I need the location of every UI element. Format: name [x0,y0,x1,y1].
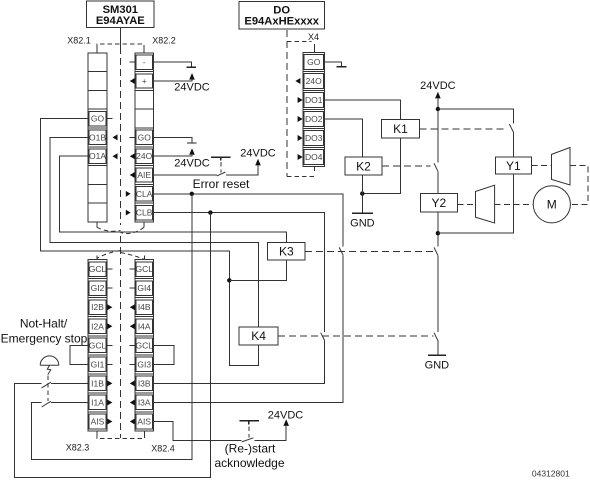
svg-text:GI2: GI2 [91,283,105,293]
X4 DO2 direction arrow [298,116,303,122]
24VDC arrow (plus) [189,73,195,80]
wire CLA from X82.2 to K3 contact [154,194,344,247]
relay K1 [381,120,419,138]
K4 dashed actuating link [278,335,433,337]
SM301 stub to connector bracket [120,28,122,47]
svg-text:GI3: GI3 [137,359,151,369]
wire X82.2 GO to 0V bar [154,137,192,142]
terminal column X82.3 [88,260,107,431]
module title box DO / E94AxHExxxx [239,2,324,29]
terminal X82.2 CLA [136,187,153,201]
module title box SM301 / E94AYAE [87,1,155,28]
svg-text:-: - [143,57,146,67]
wire contact K1 to Y1 [512,132,514,157]
contact K3 on return rail [434,247,438,255]
wire branch to Y1 feed [438,109,514,123]
X82.4 I3A direction arrow [130,400,135,406]
dashed link Y1 to brake [532,165,552,167]
X4 24O direction arrow [295,78,300,84]
svg-text:I3B: I3B [138,378,151,388]
terminal X82.4 I4B [136,300,153,315]
X82.4 I4B direction arrow [130,304,135,310]
X82.3 AIS direction arrow [107,419,112,425]
terminal column X82.1 [88,53,107,222]
valve coil Y1 [496,157,532,174]
brake symbol for Y2 [476,185,495,223]
terminal X82.3 I2B [89,300,106,315]
X82.2 AIE direction arrow [130,172,135,178]
node supply rail branch [436,107,440,111]
X4 DO1 direction arrow [298,97,303,103]
0V bar symbol (GO) [187,142,197,144]
stub bracket to column X82.2 [143,49,145,53]
X82.2 CLB direction arrow [126,210,131,216]
stub to column X82.4 [144,256,146,260]
terminal X82.4 GI4 [136,281,153,296]
relay K2 [345,157,382,175]
terminal X82.1 O1B [89,130,107,144]
wire CLB below contact to I3B [154,341,325,384]
brake symbol for Y1 [552,148,571,186]
wire X82.2 24O to 24VDC [154,155,193,156]
error reset pushbutton actuator [211,157,231,160]
stub column X82.3 to bracket [96,431,98,435]
emergency stop mushroom head [40,356,59,365]
terminal X82.2 AIE [136,168,153,182]
relay K4 [239,327,278,345]
svg-text:I1B: I1B [91,378,104,388]
svg-text:X4: X4 [308,32,319,42]
terminal X82.2 minus [136,55,153,69]
svg-text:DO1: DO1 [305,95,323,105]
svg-text:24VDC: 24VDC [420,80,456,92]
bottom connector bracket X82.3/X82.4 (dashed) [97,435,145,439]
terminal X82.2 24O [136,149,153,163]
X4 DO4 direction arrow [298,154,303,160]
svg-text:Emergency stop: Emergency stop [1,332,88,346]
error reset contact blade [217,172,226,176]
return rail between contacts [437,255,439,332]
terminal X82.4 I3A [136,395,153,410]
X82.4 I3B direction arrow [130,380,135,386]
X82.4 I4A direction arrow [130,323,135,329]
svg-text:K3: K3 [279,245,294,259]
contact K1 on Y1 feed [509,124,513,132]
motor M [533,186,570,223]
dashed link Y2 to brake [457,203,475,205]
wire AIS X82.4 to restart contact [154,422,242,441]
svg-text:24VDC: 24VDC [174,82,210,94]
svg-text:Error reset: Error reset [193,177,250,191]
terminal X82.4 I4A [136,319,153,334]
connector bracket X82.1/X82.2 (dashed) [97,44,144,48]
break squiggle bottom [97,251,145,260]
svg-text:GI1: GI1 [91,359,105,369]
terminal X82.3 GI1 [89,357,106,372]
svg-text:DO4: DO4 [305,152,323,162]
svg-text:K2: K2 [356,159,371,173]
wire Y2 bottom to K3 contact [437,212,439,247]
terminal X82.4 AIS [136,414,153,429]
svg-text:GCL: GCL [89,340,107,350]
svg-text:DO3: DO3 [305,133,323,143]
error reset actuator dashed link [220,162,222,173]
svg-text:GND: GND [425,360,450,372]
terminal X82.3 I2A [89,319,106,334]
svg-text:GCL: GCL [135,264,153,274]
X82.4 pin dashes GCL GI4 GCL GI3 [130,269,136,364]
24VDC arrow (24O) [189,148,195,155]
svg-text:GCL: GCL [135,340,153,350]
X82.2 GO pin dash [130,136,136,138]
contact K4 on return rail [434,333,438,341]
restart contact blade [242,438,254,442]
svg-text:I2B: I2B [91,302,104,312]
svg-text:AIS: AIS [91,417,105,427]
terminal X4 DO4 [304,150,324,165]
emergency stop contact 1 blade [42,382,51,388]
terminal X82.4 GI3 [136,357,153,372]
svg-text:O1B: O1B [89,132,106,142]
stub X4 to DO column [314,44,316,53]
svg-text:GCL: GCL [89,264,107,274]
X82.3 I1B direction arrow [107,380,112,386]
svg-text:I4B: I4B [138,302,151,312]
terminal X82.2 plus [136,74,153,88]
terminal column X4 (DO) [303,53,325,167]
X82.1 GO pin dash [107,118,113,120]
X82.1 O1A direction arrow [113,153,118,159]
restart actuator dashed link [248,427,250,438]
terminal X82.1 GO [89,111,106,125]
svg-text:+: + [142,76,147,86]
terminal column X82.2 [135,53,154,222]
svg-text:K1: K1 [393,122,408,136]
DO boundary dashes top [287,41,312,43]
svg-text:K4: K4 [251,329,266,343]
contact K4 on CLB line [321,333,325,341]
relay K3 [268,243,306,260]
terminal X82.3 GCL (mid) [89,338,107,353]
GND bar (K2) [352,212,373,214]
svg-text:O1A: O1A [89,151,106,161]
wire contact 2 to I1A [51,402,88,404]
wire DO1 to K1 [325,100,401,120]
24VDC arrow (restart) [283,419,289,426]
24VDC arrow (error reset) [255,159,261,166]
svg-text:04312801: 04312801 [532,469,570,479]
column bottom stubs and break curves [97,222,144,227]
terminal X82.3 AIS [89,414,106,429]
X82.2 minus pin dash [130,61,136,63]
terminal X82.3 I1B [89,376,106,391]
svg-text:GI4: GI4 [137,283,151,293]
terminal X82.3 I1A [89,395,106,410]
wire restart contact to 24VDC arrow [255,426,287,441]
terminal X82.1 O1A [89,149,107,163]
X82.4 AIS direction arrow [130,419,135,425]
svg-text:X82.1: X82.1 [67,35,91,45]
terminal X82.4 GCL (top) [135,262,153,277]
K3 dashed actuating link [305,250,434,252]
K1 dashed actuating link [420,128,506,130]
svg-text:AIE: AIE [137,170,151,180]
wire X82.1 O1A to K3 coil [59,156,286,242]
0V bar symbol (minus) [187,66,197,68]
terminal X4 DO3 [304,131,324,146]
valve coil Y2 [421,194,458,212]
SM301 dashed module centre line [120,47,122,225]
svg-text:GO: GO [307,57,321,67]
svg-text:Not-Halt/: Not-Halt/ [20,317,68,331]
dashed link brake to motor [495,203,533,205]
wire CLB from X82.2 to K4 contact [154,213,325,332]
wire K3 return to GO line [229,260,286,280]
terminal X82.3 GCL (top) [89,262,107,277]
svg-text:24VDC: 24VDC [174,158,210,170]
X82.3 pin dashes GCL GI2 GCL GI1 [107,269,113,364]
GCL-GI3 link loop X82.4 [154,345,174,364]
X82.3 I1A direction arrow [107,400,112,406]
wire X82.2 minus to 0V bar [154,62,192,67]
node CLB branch [208,210,212,214]
svg-text:GO: GO [138,132,152,142]
svg-text:24O: 24O [306,76,322,86]
wire error reset contact to 24VDC arrow [226,165,258,175]
wire DO2 to K2 [325,119,363,157]
svg-text:Y2: Y2 [432,196,447,210]
svg-text:I3A: I3A [138,398,151,408]
wire CLA below contact to I3A [154,255,344,402]
stub to column X82.3 [96,256,98,260]
wire contact 1 to I1B [51,382,88,384]
emergency stop dashed link [47,376,49,401]
terminal X4 DO1 [304,93,324,108]
wire CLA branch down to emergency stop contact 2 [31,194,192,460]
svg-text:M: M [547,198,557,212]
stub column X82.4 to bracket [144,431,146,435]
wire CLB branch down to emergency stop contact 1 [14,213,210,478]
svg-text:I2A: I2A [91,321,104,331]
K2 dashed actuating link [382,165,431,167]
terminal X82.2 GO [136,130,153,144]
wire X82.2 plus to 24VDC [154,80,193,81]
X82.2 24O direction arrow [130,153,135,159]
X82.2 CLA direction arrow [126,191,131,197]
DO column bottom stub [314,167,316,172]
terminal X4 GO [304,55,324,70]
X82.2 plus direction arrow [130,78,135,84]
24VDC arrow (supply rail) [435,92,441,99]
GND bar (rail) [428,354,446,356]
svg-text:I4A: I4A [138,321,151,331]
contact K2 on supply rail [434,163,438,171]
node K1/K2 return junction [360,191,364,195]
emergency stop contact 2 blade [42,401,51,407]
supply rail to Y2 [437,171,439,193]
wire X82.1 O1B to K4 coil [50,137,258,327]
0V bar symbol (X4 GO) [337,66,347,68]
X82.1 O1B direction arrow [113,134,118,140]
wire K1 return to K2 return [362,138,400,194]
X4 DO3 direction arrow [298,135,303,141]
svg-text:X82.3: X82.3 [66,443,90,453]
svg-text:24VDC: 24VDC [240,148,276,160]
node GO / K3 return junction [227,278,231,282]
svg-text:E94AxHExxxx: E94AxHExxxx [244,15,319,27]
wire K2 return to GND [361,175,363,213]
wire Y1 bottom return [438,174,514,233]
wire X4 GO to 0V bar [325,62,342,66]
svg-text:I1A: I1A [91,398,104,408]
terminal X4 24O [304,74,324,89]
dashed link brake to corner [570,166,588,205]
svg-text:AIS: AIS [137,417,151,427]
svg-text:CLB: CLB [136,208,153,218]
DO boundary dashes bottom [287,176,317,178]
DO module dashed boundary [286,30,288,176]
svg-text:X82.4: X82.4 [151,444,175,454]
svg-text:E94AYAE: E94AYAE [96,15,145,27]
terminal X82.3 GI2 [89,281,106,296]
svg-text:Y1: Y1 [506,159,521,173]
svg-text:acknowledge: acknowledge [214,456,284,470]
svg-text:CLA: CLA [136,189,153,199]
node Y1 return junction [436,231,440,235]
wire AIE to error reset contact [154,174,217,176]
restart pushbutton actuator [240,421,259,425]
svg-text:X82.2: X82.2 [152,36,176,46]
X82.3 I2A direction arrow [107,323,112,329]
terminal X4 DO2 [304,112,324,127]
svg-text:(Re-)start: (Re-)start [225,441,276,455]
svg-text:GO: GO [91,114,105,124]
break squiggle top [97,227,144,233]
svg-text:24VDC: 24VDC [268,409,304,421]
emergency stop actuator zigzag [47,365,51,374]
svg-text:GND: GND [350,218,375,230]
GCL-GI1 link loop X82.3 [70,345,88,364]
X82.3 I2B direction arrow [107,304,112,310]
terminal column X82.4 [135,260,154,431]
node CLA branch [190,192,194,196]
svg-text:24O: 24O [136,151,152,161]
SM301 dashed module centre line lower [120,236,122,438]
terminal X82.2 CLB [136,205,153,219]
stub bracket to column X82.1 [96,49,98,53]
return rail to GND [437,341,439,356]
terminal X82.4 I3B [136,376,153,391]
contact K3 on CLA line [339,247,343,255]
supply rail upper segment [437,98,439,162]
wire X82.1 GO to K4 return [41,119,259,366]
terminal X82.4 GCL (mid) [135,338,153,353]
svg-text:DO2: DO2 [305,114,323,124]
